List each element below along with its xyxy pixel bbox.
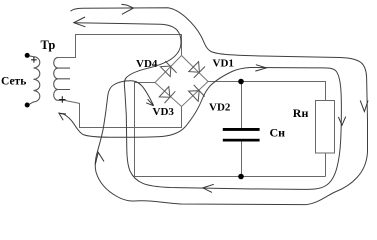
diode VD4 [160,61,176,77]
diode VD3 [159,87,175,104]
arrow right on inner loop right [255,65,266,71]
svg-text:VD3: VD3 [153,106,175,118]
wire bridge R to top rail and load [208,82,326,177]
bridge diamond edges [155,56,208,107]
junction node dot bottom [238,174,244,180]
wire secondary top to bridge T [58,35,182,58]
svg-text:Rн: Rн [293,106,309,120]
junction node dot top (bridge + output) [238,79,244,85]
plus sign secondary [59,96,66,102]
svg-text:VD2: VD2 [209,102,231,114]
transformer primary winding [29,56,40,105]
svg-text:Сн: Сн [270,125,286,139]
diode VD2 [189,85,205,101]
primary terminal dot top [25,53,30,58]
arrow up on outer loop bottom left [95,152,104,164]
arrow down on inner loop right side [338,117,345,126]
arrow right on outer loop top [121,4,133,14]
freehand outer current loop [71,8,368,205]
diode VD1 [189,62,205,78]
wire secondary bottom to bridge B [64,100,182,127]
arrow left on inner loop top [74,17,86,27]
wire bridge L to bottom rail [135,83,326,177]
transformer secondary winding [54,57,70,100]
arrow head near VD3 (outer loop end) [146,99,153,106]
primary terminal dot bottom [25,103,30,108]
arrow left on inner loop bottom [203,184,214,192]
svg-text:VD1: VD1 [213,58,234,70]
plus sign primary [31,57,37,63]
resistor Rn box [316,101,335,154]
capacitor C plates [223,128,260,142]
arrow up-left at inner loop end near transformer [59,113,66,120]
svg-text:Сеть: Сеть [1,76,26,88]
arrow down on outer loop right side [360,100,368,111]
freehand inner current loop [59,23,341,190]
svg-text:Тр: Тр [41,38,56,52]
